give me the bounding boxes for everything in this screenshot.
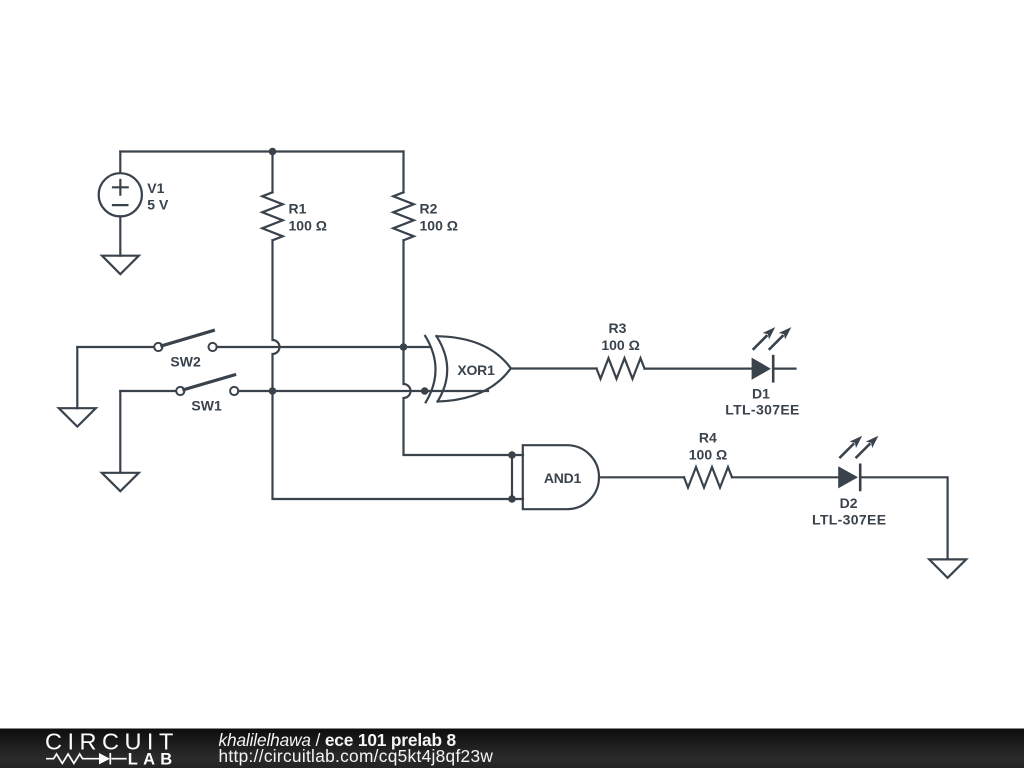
svg-text:XOR1: XOR1 (457, 362, 495, 378)
svg-text:100 Ω: 100 Ω (289, 218, 327, 234)
svg-text:AND1: AND1 (544, 470, 582, 486)
svg-text:5 V: 5 V (147, 197, 169, 213)
ground SW1 (102, 473, 139, 491)
wire R2 bottom with hop over SW1 wire, down to AND input A (404, 240, 513, 455)
svg-text:R2: R2 (420, 201, 438, 217)
diode D1 (LED) (752, 356, 774, 381)
wire R1 bottom with hop over SW2 wire, down to AND input B (273, 240, 513, 499)
ground V1 (102, 256, 139, 275)
wire AND input tie (511, 455, 513, 499)
svg-text:http://circuitlab.com/cq5kt4j8: http://circuitlab.com/cq5kt4j8qf23w (219, 746, 494, 766)
LED D1 arrows (754, 327, 792, 349)
resistor R1 (262, 192, 283, 240)
svg-text:SW1: SW1 (191, 398, 222, 414)
svg-text:100 Ω: 100 Ω (689, 447, 727, 463)
wire V1 bottom lead (119, 216, 121, 255)
wire XOR output (511, 367, 597, 369)
svg-text:LTL-307EE: LTL-307EE (812, 512, 886, 528)
wire R1 top lead (271, 152, 273, 193)
wire SW1 left (120, 390, 176, 392)
switch SW2 (154, 331, 217, 352)
svg-text:D1: D1 (752, 385, 770, 401)
footer title text (219, 730, 457, 750)
wire D1 right stub (773, 368, 795, 370)
wire AND output (599, 476, 684, 478)
footer url text (219, 746, 494, 766)
voltage source V1 (99, 173, 142, 216)
svg-text:LAB: LAB (128, 751, 178, 768)
wire R2 top lead (402, 152, 404, 193)
switch SW1 (176, 375, 238, 395)
resistor R2 (393, 192, 414, 240)
resistor R3 (597, 358, 645, 379)
wire SW2 left (77, 346, 154, 348)
wire R3 to D1 (645, 368, 752, 370)
svg-text:SW2: SW2 (170, 354, 201, 370)
node AND input B (508, 495, 516, 503)
svg-text:LTL-307EE: LTL-307EE (725, 402, 799, 418)
wire top rail (120, 150, 403, 152)
svg-text:D2: D2 (840, 495, 858, 511)
wire SW2 to XOR input A (217, 346, 430, 348)
CircuitLab logo (45, 729, 179, 768)
node XOR input B pin (421, 387, 429, 395)
wire AND pin stubs (512, 455, 523, 499)
svg-text:100 Ω: 100 Ω (601, 337, 639, 353)
node top-rail R1 junction (269, 148, 277, 156)
svg-text:100 Ω: 100 Ω (420, 218, 458, 234)
op-amp AND1 gate body (523, 445, 599, 509)
LED D2 arrows (840, 436, 878, 458)
wire R4 to D2 (732, 476, 838, 478)
ground SW2 (59, 408, 96, 426)
svg-text:R1: R1 (289, 201, 307, 217)
wire SW1 ground drop (119, 391, 121, 473)
wire SW1 to XOR input B (238, 390, 488, 392)
ground D2 (929, 559, 966, 577)
wire V1 top lead (119, 152, 121, 174)
svg-text:R3: R3 (609, 320, 627, 336)
wire SW2 ground drop (76, 347, 78, 408)
svg-text:V1: V1 (147, 180, 164, 196)
diode D2 (LED) (838, 465, 860, 490)
svg-text:R4: R4 (699, 430, 717, 446)
wire D2 to ground corner (860, 477, 947, 559)
op-amp XOR1 gate body (425, 336, 511, 403)
resistor R4 (684, 467, 732, 488)
node SW1/R1 junction (269, 387, 277, 395)
node AND input A (508, 451, 516, 459)
node SW2/R2 junction (400, 343, 408, 351)
